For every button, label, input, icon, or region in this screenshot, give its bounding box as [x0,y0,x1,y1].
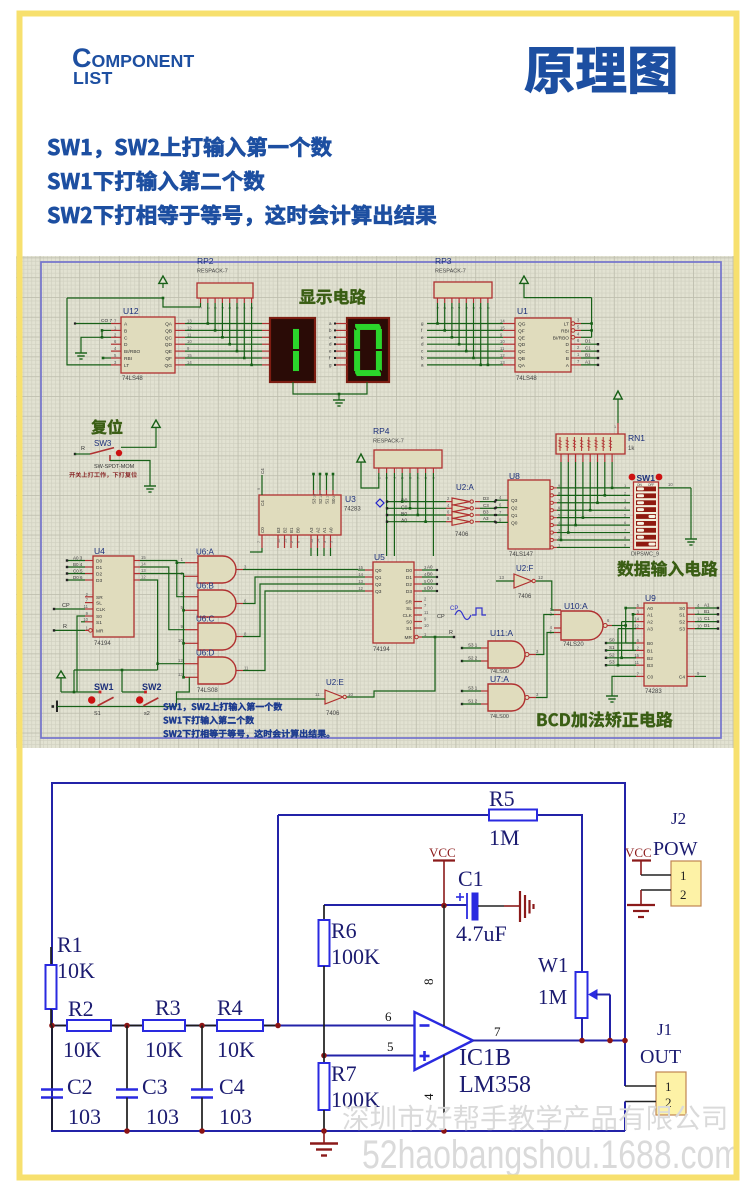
wire RP3 mesh row 3 to U1 [427,336,503,338]
vcc power arrow above U1 [520,276,528,283]
svg-text:R5: R5 [489,786,515,811]
svg-text:11: 11 [315,692,320,697]
origin marker blue diamond [376,499,384,507]
ic U3 74283 [259,495,341,535]
svg-text:B1: B1 [289,527,294,533]
switch SW2 [136,696,143,703]
wire U2:F out riser [536,581,561,610]
wire upper link rail [74,669,158,671]
U5 pin CLK [414,614,422,616]
net label B0 4 [67,566,85,568]
U4 left pin D0 [85,560,93,562]
svg-text:RESPACK-7: RESPACK-7 [435,269,466,275]
svg-text:QB: QB [165,328,172,334]
dip switch pin 10 wire [659,487,692,489]
U9 right pin S3 [687,628,695,630]
battery terminal at SW rail [56,701,58,713]
inverter U2:C [452,511,470,518]
connector J2 [671,861,701,906]
svg-text:SR: SR [96,595,103,601]
svg-text:D2: D2 [96,572,102,578]
svg-text:12: 12 [358,586,363,591]
svg-text:10K: 10K [57,958,95,983]
U1 right pin A [571,364,581,366]
svg-text:10: 10 [697,624,702,629]
U6:B output pin [236,603,243,605]
svg-text:11: 11 [187,332,192,337]
svg-text:C3: C3 [142,1074,168,1099]
svg-text:QA: QA [518,363,526,369]
svg-text:SL: SL [96,601,102,607]
svg-text:A1: A1 [322,527,327,533]
wire RP4 pin 3 drop [393,473,395,556]
U12 left pin A [111,323,121,325]
svg-text:5: 5 [330,541,334,543]
7seg1 pin 5 stub [262,350,270,352]
op-amp minus sign [420,1024,430,1027]
wire RP3 pin 2 drop [444,303,446,330]
RP4 pin 4 stub [401,468,403,473]
wire RN1 pin 3 to row [567,462,569,533]
U8 right pin 2 [550,538,553,541]
wire RP2 pin 2 drop to row 1 [207,303,209,324]
svg-text:B1: B1 [647,648,653,654]
resistor R3 [143,1020,185,1031]
overlay note line 1 [163,702,282,711]
schematic sheet border [41,262,721,738]
W1 wiper arrow [588,989,598,1000]
svg-text:MR: MR [96,628,104,634]
wire U9 C0 to ground [612,676,636,690]
svg-text:S0: S0 [609,638,615,643]
U10:A input pin 1 [554,609,561,611]
U12 left pin B [111,329,121,331]
svg-text:7406: 7406 [455,532,469,538]
U8 left pin Q2 [496,507,508,509]
svg-text:D0 6: D0 6 [73,575,83,580]
net label S2 at U9 [605,657,607,659]
svg-text:QD: QD [165,342,173,348]
U8 left pin Q3 [496,499,508,501]
wire U12 QB to display [185,329,262,331]
wire RP4 pin 6 to row B0 [417,473,419,515]
svg-text:14: 14 [634,617,639,622]
net label D0 at U5 [422,590,437,592]
wire U8 row 6 to DIP switch [557,509,630,511]
wire SW3 lower contact to ground [110,461,150,481]
wire 7seg displays to ground [293,382,367,394]
wire U6A out to U5 [243,569,358,571]
svg-text:1: 1 [680,868,687,883]
U1 right pin B [571,357,581,359]
resistor pack RP2 [197,283,253,298]
U8 left pin Q0 [496,521,508,523]
RN1 pin 3 stub [567,454,569,462]
svg-text:D0: D0 [96,559,102,565]
svg-text:QE: QE [165,349,172,355]
wire U4 S1 stub [81,621,85,623]
svg-text:SR: SR [405,600,412,606]
U12 left pin BI/RBO [111,350,121,352]
svg-text:7: 7 [494,1024,501,1039]
U1 left pin stub row 6 [503,357,515,359]
U5 right pin D3 [414,590,422,592]
net label D1 at U9 [695,628,718,630]
svg-text:7: 7 [257,541,261,543]
U4 pin S1 [85,621,93,623]
wire RP3 mesh row 2 to U1 [427,329,503,331]
RP3 pin 1 stub [437,298,439,303]
svg-text:U7:A: U7:A [490,674,509,684]
wire RP3 pin 6 drop [473,303,475,358]
svg-text:A1: A1 [585,359,591,364]
wire RP3 pin 3 drop [451,303,453,337]
7seg1 pin 4 stub [262,343,270,345]
svg-text:74LS48: 74LS48 [516,376,537,382]
svg-text:R4: R4 [217,995,243,1020]
svg-text:Q0: Q0 [375,568,382,574]
wire U1 RBI to vcc riser [581,329,592,331]
RN1 pin 2 stub [560,454,562,462]
RP2 pin 3 stub [214,298,216,303]
svg-text:74LS20: 74LS20 [563,642,584,648]
wire SW1 contact rail [61,691,100,693]
RP4 pin 8 stub [432,468,434,473]
svg-text:11: 11 [424,610,429,615]
svg-text:1k: 1k [628,446,635,452]
svg-text:9: 9 [257,488,261,490]
wire RN1 pin 6 to row [589,462,591,510]
U5 left pin Q1 [365,576,373,578]
svg-text:14: 14 [500,319,505,324]
U12 right pin QE [175,350,185,352]
svg-text:10: 10 [500,339,505,344]
U8 left pin Q1 [496,514,508,516]
svg-text:B1: B1 [704,609,710,614]
wire bottom rail [57,706,177,708]
svg-text:S0: S0 [96,614,102,620]
wire U12 pin A [75,323,111,325]
svg-text:S2: S2 [679,620,685,626]
svg-text:10: 10 [348,692,354,697]
U9 left pin B0 [636,642,644,644]
U1 right pin BI/RBO [571,336,575,340]
vcc power arrow above SW3 [152,420,160,427]
svg-text:S1: S1 [94,711,101,717]
wire U4 S0 to SW1 rail [77,616,85,692]
svg-text:Q2: Q2 [511,506,518,512]
net label D1 [581,343,598,345]
dip switch SW1 label [629,474,636,481]
svg-text:12: 12 [141,575,146,580]
U12 right pin QA [175,323,185,325]
U8 right pin 9 [550,486,553,489]
net label S0 at U9 [605,642,607,644]
svg-text:13: 13 [319,494,323,498]
wire U12 QD to display [185,343,262,345]
svg-text:103: 103 [219,1104,252,1129]
svg-text:B: B [566,356,569,362]
wire vcc to RP2 pin1 [163,298,201,307]
wire U11:A out to U10:A [536,615,554,655]
wire DIP to ground [690,488,692,533]
svg-text:14: 14 [141,562,146,567]
wire RP2 pin 8 drop to row 7 [251,303,253,365]
U3 bottom pin A2 [317,535,319,548]
wire RP4 pin 1 to vcc [361,467,379,488]
junction dot C1 node [441,903,447,909]
svg-text:13: 13 [358,579,363,584]
svg-text:LIST: LIST [73,68,113,88]
svg-text:13: 13 [697,617,702,622]
wire U6C out to U5 [243,584,358,637]
RP4 pin 7 stub [425,468,427,473]
svg-text:CLK: CLK [96,607,106,613]
net label C3 [480,507,495,509]
wire RP3 mesh row 6 to U1 [427,357,503,359]
svg-text:100K: 100K [331,944,380,969]
RN1 pin 7 stub [597,454,599,462]
capacitor C1 [466,893,468,919]
svg-text:15: 15 [141,555,146,560]
wire RP3 pin 5 drop [465,303,467,351]
op-amp pin 8 wire [443,905,445,1026]
wire RP4 pin 4 to row D0 [401,473,403,502]
7-segment display 2 showing 0 [347,318,389,382]
wire RP2 pin 4 drop to row 3 [221,303,223,337]
RN1 internal resistor 2 [566,437,568,451]
U7:A input S1 [461,703,463,705]
U9 left pin B3 [636,664,644,666]
vcc power arrow above RP2 pin 1 [159,276,167,283]
svg-text:C: C [124,335,128,341]
U8 right pin 4 [550,524,553,527]
RP4 pin 1 stub [378,468,380,473]
wire top rail [51,782,626,784]
U3 top pin C4 [261,475,263,495]
svg-text:B2: B2 [647,656,653,662]
wire RP4 pin 2 drop [386,473,388,556]
wire RP2 pin 7 drop to row 6 [243,303,245,358]
svg-text:QD: QD [518,342,526,348]
U3 top pin S0 [332,490,334,495]
svg-text:A1: A1 [704,603,710,608]
svg-text:8: 8 [421,979,436,986]
svg-text:C: C [566,349,570,355]
U9 pin C0 [636,675,644,677]
U12 right pin QC [175,336,185,338]
U1 left pin stub row 5 [503,350,515,352]
RN1 pin 4 stub [575,454,577,462]
wire U4 Q3 to U6D [140,580,158,670]
wire row C0 to U2 gate [387,507,446,509]
svg-text:A3: A3 [309,527,314,533]
RN1 internal resistor 5 [588,437,590,451]
wire U9 vertical riser [622,621,636,623]
svg-text:D0: D0 [406,568,412,574]
header line 2 [48,171,265,191]
RP3 pin 8 stub [487,298,489,303]
svg-text:DIPSWC_9: DIPSWC_9 [631,552,659,558]
svg-text:RP2: RP2 [197,256,214,266]
svg-text:U9: U9 [645,593,656,603]
U8 right pin 5 [550,516,553,519]
svg-text:4.7uF: 4.7uF [456,921,507,946]
resistor network RN1 [556,434,625,454]
svg-text:12: 12 [500,353,505,358]
svg-text:S3: S3 [312,498,317,504]
wire RN1 pin 9 to row [611,462,613,488]
svg-text:74LS48: 74LS48 [122,376,143,382]
svg-text:S3 1: S3 1 [468,643,478,648]
svg-text:Q0: Q0 [511,520,518,526]
U12 left pin LT [111,364,121,366]
svg-text:S1: S1 [325,498,330,504]
svg-text:13: 13 [187,319,192,324]
wire RN1 pin 8 to row [604,462,606,495]
svg-text:QG: QG [518,322,526,328]
svg-text:RBI: RBI [124,356,132,362]
U8 right pin 8 [550,494,553,497]
wire U6D out to U5 [243,591,358,671]
svg-text:C0: C0 [260,527,265,533]
7seg1 pin 1 stub [262,323,270,325]
svg-text:1: 1 [180,557,183,562]
svg-text:U6:C: U6:C [196,615,214,624]
wire RN1 pin 7 to row [597,462,599,503]
resistor pack RP4 [374,450,442,468]
svg-text:C1: C1 [704,616,710,621]
and gate U6:C [198,623,236,650]
net label S3 at U9 [605,664,607,666]
U6:D input pins [185,663,198,665]
net label B0 at U5 [422,576,437,578]
op-amp pin 4 wire [443,1055,445,1131]
U1 left pin stub row 2 [503,329,515,331]
RP2 pin 4 stub [221,298,223,303]
svg-text:R: R [63,624,67,630]
svg-text:CLK: CLK [403,613,413,619]
svg-text:A0: A0 [329,527,334,533]
svg-text:10K: 10K [145,1037,183,1062]
svg-text:3: 3 [332,496,336,498]
junction dot R6 R7 node [321,1053,327,1059]
wire link down left [73,670,75,692]
net label D0 6 [67,579,85,581]
dip switch rockers [636,487,656,492]
U10:A input pin 5 [554,632,561,634]
svg-text:J1: J1 [657,1020,672,1039]
wire U12 QA to display [185,323,262,325]
U5 pin MR [415,635,419,639]
svg-text:U2:A: U2:A [456,483,474,492]
svg-text:C1: C1 [585,346,591,351]
U11:A input S2 [461,660,463,662]
7seg1 pin 3 stub [262,336,270,338]
svg-text:74194: 74194 [94,641,111,647]
U9 right pin S1 [687,613,695,615]
wire U8 row 7 to DIP switch [557,502,630,504]
svg-text:5: 5 [387,1039,394,1054]
RN1 internal resistor 6 [595,437,597,451]
wire link down mid [121,670,123,692]
svg-text:1M: 1M [489,825,520,850]
svg-text:Q3: Q3 [375,589,382,595]
U9 left pin A0 [636,607,644,609]
svg-text:1: 1 [665,1079,672,1094]
net label A0 at U5 [422,569,437,571]
wire R5 to W1 branch [537,814,583,816]
svg-text:RESPACK-7: RESPACK-7 [197,269,228,275]
svg-text:12: 12 [310,539,314,543]
ic U9 74283 [644,603,687,686]
svg-text:100K: 100K [331,1087,380,1112]
svg-text:12: 12 [187,325,192,330]
and gate U6:A [198,556,236,583]
resistor R2 [67,1020,111,1031]
U1 left pin stub row 3 [503,336,515,338]
svg-text:U6:D: U6:D [196,649,214,658]
svg-text:14: 14 [187,360,192,365]
U4 left pin D1 [85,566,93,568]
svg-text:Q3: Q3 [511,498,518,504]
RN1 internal resistor 3 [573,437,575,451]
svg-text:B3: B3 [483,510,489,515]
wire U10 out to U9 column [612,625,626,627]
svg-text:S1: S1 [679,612,685,618]
ground at J2 [640,890,642,905]
header line 3 [48,205,436,226]
net label A3 [480,521,495,523]
svg-text:ON: ON [637,483,642,487]
U1 left pin stub row 4 [503,343,515,345]
svg-text:BI/RBO: BI/RBO [553,335,570,341]
U3 bottom pin A1 [323,535,325,548]
U1 right pin RBI [571,329,575,333]
wire RP3 mesh row 5 to U1 [427,350,503,352]
svg-text:S0: S0 [331,498,336,504]
svg-text:R2: R2 [68,996,94,1021]
nand gate U7:A 74LS00 [488,684,525,711]
RP3 pin 2 stub [444,298,446,303]
svg-text:S0: S0 [406,620,412,626]
svg-text:D1: D1 [585,339,591,344]
7-segment display 1 showing 1 [270,318,315,382]
svg-text:15: 15 [358,565,363,570]
wire U7:A out to U10:A [536,633,554,698]
wire RP4 pin 5 to row C0 [409,473,411,508]
svg-text:POW: POW [653,838,698,860]
svg-text:R6: R6 [331,918,357,943]
U12 right pin QG [175,364,185,366]
net label B1 [581,357,598,359]
resistor R5 [489,810,537,821]
svg-text:A3: A3 [647,627,653,633]
U8 right pin 7 [550,501,553,504]
svg-text:S0: S0 [679,606,685,612]
svg-text:C1: C1 [458,866,484,891]
wire RP3 pin 1 drop [437,303,439,324]
svg-text:13: 13 [500,360,505,365]
svg-text:C2: C2 [67,1074,93,1099]
svg-text:S1: S1 [406,626,412,632]
U3 top pin S2 [319,490,321,495]
U5 right pin D0 [414,569,422,571]
U9 right pin C4 [687,675,695,677]
wire RP2 pin 3 drop to row 2 [214,303,216,330]
wire U6B out to U5 [243,577,358,604]
svg-text:D1: D1 [704,623,710,628]
